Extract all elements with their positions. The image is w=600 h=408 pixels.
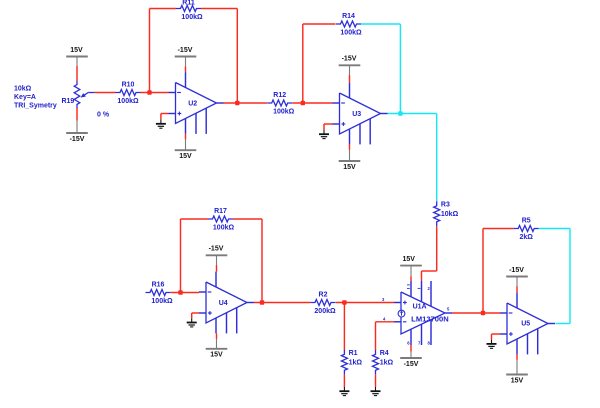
svg-text:-15V: -15V [209, 246, 224, 253]
svg-text:R14: R14 [342, 13, 355, 20]
svg-text:100kΩ: 100kΩ [340, 30, 362, 37]
svg-text:U4: U4 [219, 300, 228, 307]
svg-text:-15V: -15V [509, 267, 524, 274]
svg-text:15V: 15V [343, 164, 356, 171]
svg-text:15V: 15V [402, 256, 415, 263]
svg-text:R10: R10 [122, 82, 135, 89]
svg-text:100kΩ: 100kΩ [117, 98, 139, 105]
svg-text:10kΩ: 10kΩ [441, 211, 459, 218]
svg-text:Key=A: Key=A [14, 94, 36, 101]
svg-text:R16: R16 [152, 282, 165, 289]
svg-text:U2: U2 [188, 100, 197, 107]
svg-text:-15V: -15V [70, 136, 85, 143]
svg-text:2kΩ: 2kΩ [519, 234, 533, 241]
svg-text:10kΩ: 10kΩ [14, 86, 32, 93]
svg-text:100kΩ: 100kΩ [181, 14, 203, 21]
svg-text:100kΩ: 100kΩ [151, 298, 173, 305]
svg-text:R12: R12 [273, 92, 286, 99]
svg-text:100kΩ: 100kΩ [273, 109, 295, 116]
svg-text:1kΩ: 1kΩ [349, 360, 363, 367]
svg-text:R17: R17 [214, 208, 227, 215]
svg-text:1kΩ: 1kΩ [380, 360, 394, 367]
svg-text:0 %: 0 % [97, 112, 110, 119]
svg-text:R2: R2 [319, 292, 328, 299]
svg-text:15V: 15V [210, 352, 223, 359]
svg-text:R5: R5 [522, 218, 531, 225]
svg-text:-15V: -15V [404, 361, 419, 368]
svg-text:TRI_Symetry: TRI_Symetry [14, 102, 57, 109]
svg-text:15V: 15V [70, 47, 83, 54]
svg-text:R11: R11 [182, 0, 195, 6]
svg-text:U3: U3 [352, 111, 361, 118]
svg-text:-15V: -15V [178, 47, 193, 54]
svg-text:15V: 15V [511, 377, 524, 384]
svg-text:U1A: U1A [413, 304, 427, 311]
svg-text:R4: R4 [380, 350, 389, 357]
svg-text:U5: U5 [521, 320, 530, 327]
svg-text:-15V: -15V [342, 56, 357, 63]
svg-text:R19: R19 [61, 98, 74, 105]
svg-text:200kΩ: 200kΩ [314, 308, 336, 315]
svg-text:100kΩ: 100kΩ [213, 225, 235, 232]
svg-text:LM13700N: LM13700N [411, 317, 449, 324]
svg-text:15V: 15V [179, 153, 192, 160]
svg-text:R1: R1 [349, 350, 358, 357]
svg-text:R3: R3 [441, 202, 450, 209]
